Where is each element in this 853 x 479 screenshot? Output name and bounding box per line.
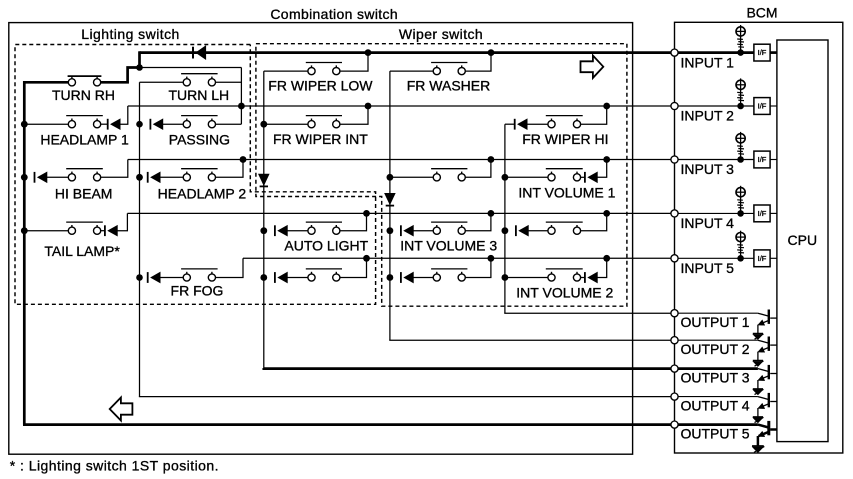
wire OUTPUT 5 internal: [678, 423, 758, 426]
wire washer rail switch left lead: [390, 176, 433, 178]
node INPUT 5 / mid switch: [363, 255, 370, 262]
CPU block U1: [777, 40, 828, 442]
node INPUT 3 / INT VOLUME 1: [603, 156, 610, 163]
switch TAIL LAMP: [68, 227, 75, 234]
wire diode to switch: [287, 277, 308, 279]
Combination switch enclosure box: [9, 23, 633, 455]
wire TAIL LAMP riser to INPUT 4: [117, 213, 127, 230]
node FR FOG tap: [136, 274, 143, 281]
diode D9 INT VOLUME 1: [584, 172, 586, 183]
node INT VOLUME 2 tap: [502, 274, 509, 281]
transistor Q1 OUTPUT 1 driver: [758, 313, 769, 316]
wire OUTPUT 1 internal: [678, 312, 758, 314]
switch FR WIPER INT: [308, 121, 315, 128]
wire thick bus corner down: [138, 51, 141, 67]
wire diode to switch: [413, 277, 433, 279]
node INT VOLUME 1 tap: [502, 174, 509, 181]
pull-up supply for INPUT 3: [736, 134, 745, 143]
wire thick jog to TURN RH: [101, 68, 140, 83]
node INPUT 3 / wiper rail switch: [488, 156, 495, 163]
node INT VOLUME 3 tap: [387, 227, 394, 234]
switch INT VOLUME 3: [433, 227, 440, 234]
svg-text:AUTO LIGHT: AUTO LIGHT: [284, 238, 368, 254]
interface block I/F INPUT 4: [754, 205, 770, 222]
connector pin OUTPUT 1: [671, 310, 678, 317]
node HEADLAMP 2 tap: [136, 174, 143, 181]
wire washer rail: [389, 71, 391, 340]
svg-text:INT VOLUME 3: INT VOLUME 3: [400, 238, 497, 254]
switch HEADLAMP 1: [68, 121, 75, 128]
node left rail TAIL LAMP: [21, 227, 28, 234]
pull-up supply for INPUT 4: [736, 188, 745, 197]
connector pin OUTPUT 4: [671, 393, 678, 400]
svg-text:INPUT 3: INPUT 3: [681, 161, 735, 177]
svg-text:* : Lighting switch 1ST positi: * : Lighting switch 1ST position.: [10, 457, 219, 473]
node INPUT 5 / INT VOLUME 2: [603, 255, 610, 262]
svg-text:OUTPUT 3: OUTPUT 3: [681, 369, 750, 385]
switch FR WIPER LOW: [308, 68, 315, 75]
wire OUTPUT 1 line: [505, 312, 671, 315]
node INPUT 2 / FR WIPER HI: [603, 103, 610, 110]
node mid switch tap: [260, 274, 267, 281]
switch wiper volume hi (unlabeled): [548, 227, 555, 234]
node AUTO LIGHT tap: [260, 227, 267, 234]
wire I/F to CPU INPUT 4: [770, 212, 777, 214]
wire HEADLAMP 1 to diode: [101, 123, 108, 125]
wire TAIL LAMP to diode: [101, 230, 105, 232]
svg-text:I/F: I/F: [758, 102, 767, 111]
connector pin OUTPUT 5: [671, 421, 678, 428]
wire wiper low/int rail: [263, 71, 265, 369]
diode D11 AUTO LIGHT: [274, 225, 276, 236]
wire OUTPUT 5 line (thick): [23, 423, 671, 426]
switch PASSING: [183, 121, 190, 128]
wire I/F to CPU INPUT 2: [770, 105, 777, 107]
svg-text:CPU: CPU: [788, 232, 818, 248]
wire OUTPUT 3 line (thick): [264, 367, 671, 370]
svg-text:INPUT 5: INPUT 5: [681, 260, 735, 276]
node INPUT 3 / HEADLAMP 2: [240, 156, 247, 163]
diode D16: [400, 272, 402, 283]
wire TURN LH left lead: [140, 81, 184, 83]
wire HEADLAMP 1 riser to INPUT 2: [120, 106, 128, 124]
svg-text:OUTPUT 5: OUTPUT 5: [681, 425, 750, 441]
wire INT VOLUME 1 to diode: [581, 176, 585, 178]
diode D8 HEADLAMP 2: [147, 172, 149, 183]
diode D2 on wiper rail (down): [259, 174, 269, 185]
wire TURN LH riser: [240, 68, 242, 125]
Lighting switch dashed boundary: [15, 45, 376, 305]
Wiper switch dashed boundary: [256, 44, 627, 307]
connector pin INPUT 3: [671, 156, 678, 163]
wire INPUT 5 internal: [678, 257, 754, 259]
node FR WIPER INT tap: [260, 121, 267, 128]
svg-text:BCM: BCM: [746, 5, 777, 21]
node INPUT 5 / mid switch 2: [488, 255, 495, 262]
svg-text:I/F: I/F: [758, 209, 767, 218]
switch wiper volume (unlabeled): [433, 174, 440, 181]
diode D14 FR FOG: [147, 272, 149, 283]
wire FR WASHER left lead: [390, 70, 433, 72]
wire FR WASHER right riser: [465, 53, 491, 72]
flow arrow right (to BCM): [581, 56, 604, 78]
diode D15: [274, 272, 276, 283]
diode D5 PASSING: [149, 119, 151, 130]
wire unlabeled switch riser to INPUT 4: [581, 213, 607, 230]
wire INPUT 4 line: [127, 212, 671, 214]
wire unlabeled switch riser: [465, 160, 491, 178]
wire riser to INPUT 5: [340, 258, 367, 277]
svg-text:Wiper switch: Wiper switch: [399, 26, 483, 42]
interface block I/F INPUT 1: [754, 44, 770, 61]
svg-text:HEADLAMP 2: HEADLAMP 2: [158, 185, 247, 201]
svg-text:I/F: I/F: [758, 254, 767, 263]
pull-up supply for INPUT 1: [736, 27, 745, 36]
wire INPUT 3 line: [128, 159, 671, 161]
switch auto light 2 (unlabeled): [308, 274, 315, 281]
diode D6 FR WIPER HI: [514, 119, 516, 130]
svg-text:PASSING: PASSING: [169, 132, 230, 148]
switch HI BEAM: [68, 174, 75, 181]
pull-up supply for INPUT 2: [736, 80, 745, 89]
node INPUT 2 / FR WIPER INT: [365, 103, 372, 110]
wire FR WIPER HI lead to diode: [505, 123, 515, 125]
wire TAIL LAMP left lead: [24, 230, 68, 232]
wire HEADLAMP 1 left lead: [24, 123, 68, 125]
node INPUT 2 / TURN LH riser: [238, 103, 245, 110]
wire OUTPUT 2 internal: [678, 339, 758, 341]
wire AUTO LIGHT diode to switch: [287, 230, 308, 232]
switch FR WASHER: [433, 68, 440, 75]
wire INPUT 2 internal: [678, 105, 754, 107]
node PASSING tap: [136, 121, 143, 128]
svg-text:TAIL LAMP*: TAIL LAMP*: [44, 243, 120, 259]
wire INT VOLUME 1 riser to INPUT 3: [597, 160, 607, 178]
wire INPUT 3 internal: [678, 159, 754, 161]
svg-text:OUTPUT 2: OUTPUT 2: [681, 341, 750, 357]
wire INPUT 1 internal: [678, 51, 754, 54]
wire INPUT 2 line: [128, 105, 671, 107]
svg-text:FR WIPER HI: FR WIPER HI: [522, 131, 608, 147]
diode D7 HI BEAM: [34, 172, 36, 183]
wire INPUT 5 line: [243, 257, 671, 259]
wire I/F to CPU INPUT 1: [770, 51, 777, 54]
wire I/F to CPU INPUT 3: [770, 159, 777, 161]
diode D13 wiper rail: [515, 225, 517, 236]
node INPUT 4 / right switch: [603, 210, 610, 217]
wire OUTPUT 3 internal: [678, 367, 758, 370]
wire FR WIPER LOW right riser: [340, 53, 368, 72]
node bus to FR WASHER: [488, 49, 495, 56]
wire HI BEAM riser to INPUT 3: [101, 160, 128, 178]
svg-text:INPUT 2: INPUT 2: [681, 108, 735, 124]
svg-text:FR WIPER INT: FR WIPER INT: [273, 131, 368, 147]
connector pin INPUT 1: [671, 49, 678, 56]
interface block I/F INPUT 3: [754, 151, 770, 168]
node right rail switch tap: [502, 227, 509, 234]
wire TURN LH right lead: [216, 81, 242, 83]
node battery feed junction: [136, 64, 143, 71]
connector pin INPUT 4: [671, 210, 678, 217]
wire HEADLAMP 2 diode to switch: [160, 176, 183, 178]
svg-text:I/F: I/F: [758, 48, 767, 57]
wire PASSING diode to switch: [163, 123, 184, 125]
wire INT VOLUME 2 riser to INPUT 5: [597, 258, 607, 277]
node INPUT 4 / INT VOLUME 3: [488, 210, 495, 217]
wire FR FOG diode to switch: [160, 277, 183, 279]
wire AUTO LIGHT riser: [340, 213, 367, 230]
node left rail HEADLAMP 1: [21, 121, 28, 128]
svg-text:TURN RH: TURN RH: [52, 87, 115, 103]
wire OUTPUT 2 line: [390, 339, 671, 342]
wire battery bus to INPUT 1 (thick): [140, 51, 671, 54]
wire FR FOG riser to INPUT 5: [216, 258, 244, 277]
interface block I/F INPUT 5: [754, 250, 770, 267]
wire HEADLAMP 2 riser: [216, 160, 244, 178]
svg-text:OUTPUT 4: OUTPUT 4: [681, 397, 750, 413]
node bus to FR WIPER LOW: [365, 49, 372, 56]
node washer rail switch tap: [387, 174, 394, 181]
transistor Q2 OUTPUT 2 driver: [758, 340, 769, 343]
wire INT VOLUME 2 to diode: [581, 277, 585, 279]
svg-text:HEADLAMP 1: HEADLAMP 1: [40, 132, 129, 148]
BCM enclosure box: [675, 22, 843, 453]
wire FR WIPER LOW left lead: [264, 70, 308, 72]
wire FR WIPER INT left lead: [264, 123, 308, 125]
switch FR WIPER HI: [548, 121, 555, 128]
wire FR WIPER INT riser: [340, 106, 368, 124]
transistor Q4 OUTPUT 4 driver: [758, 397, 769, 400]
node left rail HI BEAM: [21, 174, 28, 181]
svg-text:Lighting switch: Lighting switch: [81, 26, 180, 42]
wire left feed rail (thick): [23, 81, 26, 425]
switch INT VOLUME 2: [548, 274, 555, 281]
wire PASSING right lead: [216, 123, 242, 125]
switch AUTO LIGHT: [308, 227, 315, 234]
svg-text:OUTPUT 1: OUTPUT 1: [681, 314, 750, 330]
diode D17 INT VOLUME 2: [584, 272, 586, 283]
pull-up supply for INPUT 5: [736, 233, 745, 242]
switch int volume (unlabeled): [433, 274, 440, 281]
wire INT VOLUME 2 left lead: [505, 277, 548, 279]
switch TURN RH: [68, 79, 75, 86]
connector pin OUTPUT 3: [671, 365, 678, 372]
connector pin OUTPUT 2: [671, 337, 678, 344]
diode D12 INT VOLUME 3: [400, 225, 402, 236]
interface block I/F INPUT 2: [754, 98, 770, 115]
wire HI BEAM diode to switch: [47, 176, 69, 178]
svg-text:TURN LH: TURN LH: [168, 87, 229, 103]
switch FR FOG: [183, 274, 190, 281]
wire OUTPUT 4 line: [140, 395, 671, 398]
node INPUT 4 / AUTO LIGHT: [363, 210, 370, 217]
node mid switch 2 tap: [387, 274, 394, 281]
wire INT VOLUME 1 left lead: [505, 176, 548, 178]
transistor Q5 OUTPUT 5 driver: [758, 425, 769, 428]
switch INT VOLUME 1: [548, 174, 555, 181]
svg-text:FR WIPER LOW: FR WIPER LOW: [268, 77, 373, 93]
switch TURN LH: [183, 79, 190, 86]
connector pin INPUT 5: [671, 255, 678, 262]
wire PASSING/FR FOG rail: [139, 82, 141, 396]
wire I/F to CPU INPUT 5: [770, 257, 777, 259]
flow arrow left (return): [110, 398, 133, 421]
svg-text:FR WASHER: FR WASHER: [407, 77, 490, 93]
wire diode to switch: [528, 230, 548, 232]
wire OUTPUT 4 internal: [678, 396, 758, 398]
svg-text:Combination switch: Combination switch: [270, 6, 398, 22]
wire riser to INPUT 5: [465, 258, 491, 277]
transistor Q3 OUTPUT 3 driver: [758, 369, 769, 372]
svg-text:HI BEAM: HI BEAM: [55, 185, 113, 201]
svg-text:I/F: I/F: [758, 155, 767, 164]
wire INPUT 4 internal: [678, 212, 754, 214]
wire junction to TURN LH riser: [140, 67, 242, 69]
wire FR WIPER HI diode to switch: [527, 123, 548, 125]
wire INT VOLUME 3 diode to switch: [413, 230, 433, 232]
svg-text:INPUT 4: INPUT 4: [681, 215, 735, 231]
svg-text:INT VOLUME 1: INT VOLUME 1: [518, 185, 615, 201]
wire TURN RH to left rail (thick): [24, 81, 68, 84]
svg-text:INPUT 1: INPUT 1: [681, 54, 735, 70]
wire FR WIPER HI rail top: [504, 124, 506, 313]
diode D1 on battery bus: [192, 47, 194, 59]
diode D4 HEADLAMP 1: [107, 119, 109, 130]
wire INT VOLUME 3 riser: [465, 213, 491, 230]
svg-text:FR FOG: FR FOG: [171, 282, 224, 298]
diode D3 on washer rail (down): [385, 194, 395, 205]
switch HEADLAMP 2: [183, 174, 190, 181]
svg-text:INT VOLUME 2: INT VOLUME 2: [516, 284, 613, 300]
diode D10 TAIL LAMP: [104, 225, 106, 236]
connector pin INPUT 2: [671, 102, 678, 109]
wire FR WIPER HI riser to INPUT 2: [581, 106, 607, 124]
